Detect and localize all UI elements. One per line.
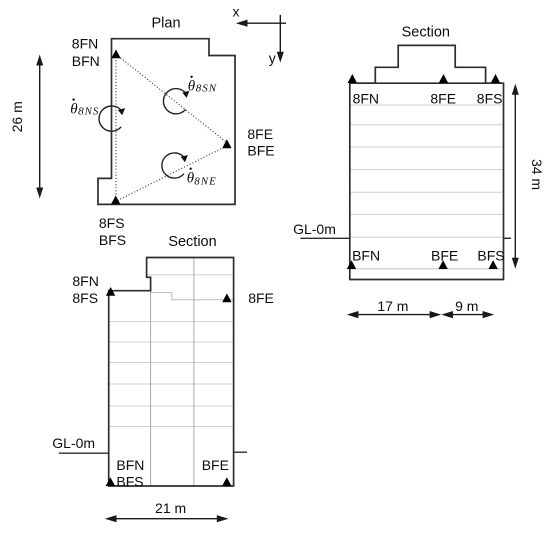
plan outline	[98, 39, 235, 205]
svg-text:8FN: 8FN	[72, 36, 98, 52]
y axis arrow	[277, 15, 284, 63]
svg-text:8FN: 8FN	[72, 273, 98, 289]
svg-text:GL-0m: GL-0m	[293, 221, 336, 237]
section (bottom) interior column line B	[193, 258, 195, 487]
label theta-8NE	[187, 168, 217, 188]
svg-text:8SN: 8SN	[196, 83, 217, 95]
svg-text:8FN: 8FN	[353, 91, 379, 107]
wire: dotted line 8FN to 8FS	[115, 57, 117, 200]
section (bottom) stepped floor line	[151, 293, 234, 300]
rotation arrow theta-8NE	[162, 153, 188, 178]
sensor triangle BFE (right section)	[438, 260, 447, 269]
sensor triangle 8FS (plan)	[111, 196, 120, 205]
svg-text:y: y	[269, 50, 276, 66]
svg-text:BFE: BFE	[431, 247, 458, 263]
wire: dotted line 8FS to 8FE	[118, 147, 226, 201]
svg-text:BFE: BFE	[202, 457, 229, 473]
svg-text:BFN: BFN	[116, 457, 144, 473]
svg-text:θ: θ	[70, 101, 78, 117]
17 m dimension arrow	[347, 311, 442, 318]
svg-text:Section: Section	[402, 25, 450, 41]
sensor triangle 8FS (right section)	[491, 74, 500, 83]
svg-text:26 m: 26 m	[9, 101, 25, 132]
sensor triangle 8FE (bottom section)	[222, 293, 231, 302]
svg-text:x: x	[233, 4, 240, 20]
svg-text:BFE: BFE	[247, 143, 274, 159]
sensor triangle 8FE (right section)	[439, 74, 448, 83]
x axis arrow	[236, 20, 286, 27]
svg-text:17 m: 17 m	[377, 298, 408, 314]
GL tick right (right section)	[504, 237, 512, 239]
svg-text:9 m: 9 m	[455, 298, 478, 314]
svg-text:8FE: 8FE	[247, 126, 273, 142]
26 m dimension arrow	[36, 55, 43, 199]
21 m dimension arrow	[105, 515, 229, 522]
section (right) basement floor line	[351, 268, 503, 270]
svg-text:8FS: 8FS	[477, 91, 503, 107]
sensor triangle 8FE (plan)	[222, 139, 231, 148]
svg-text:θ: θ	[188, 78, 196, 94]
wire: dotted line 8FN to 8FE	[118, 56, 226, 142]
sensor triangle BFE (bottom section)	[222, 477, 231, 486]
9 m dimension arrow	[441, 311, 494, 318]
sensor triangle 8FN/8FS (bottom section)	[106, 287, 115, 296]
svg-text:8FS: 8FS	[72, 290, 98, 306]
svg-text:BFS: BFS	[99, 232, 126, 248]
svg-text:GL-0m: GL-0m	[52, 435, 95, 451]
section (bottom) interior column line A	[150, 291, 152, 486]
section (bottom) outline	[109, 258, 234, 487]
sensor triangle BFS (right section)	[488, 260, 497, 269]
section (bottom) floor lines	[109, 275, 234, 427]
svg-text:Plan: Plan	[151, 15, 180, 31]
svg-text:34 m: 34 m	[529, 159, 545, 190]
svg-text:BFS: BFS	[116, 474, 143, 490]
svg-text:21 m: 21 m	[155, 500, 186, 516]
section (right) roof line	[350, 82, 504, 84]
svg-text:8FE: 8FE	[248, 290, 274, 306]
sensor triangle BFN/BFS (bottom section)	[106, 477, 115, 486]
sensor triangle BFN (right section)	[347, 260, 356, 269]
GL line (bottom section)	[59, 452, 109, 454]
34 m dimension arrow	[512, 84, 519, 269]
label theta-8SN	[188, 76, 217, 95]
section (right) outline	[350, 45, 504, 279]
svg-text:BFS: BFS	[477, 247, 504, 263]
rotation arrow theta-8SN	[163, 89, 189, 114]
svg-text:8NS: 8NS	[78, 106, 99, 118]
svg-text:Section: Section	[168, 234, 216, 250]
GL line (right section)	[300, 237, 349, 239]
sensor triangle 8FN (plan)	[111, 50, 120, 59]
sensor triangle 8FN (right section)	[348, 74, 357, 83]
label theta-8NS	[70, 98, 99, 117]
svg-text:BFN: BFN	[72, 53, 100, 69]
GL tick right (bottom section)	[234, 451, 247, 453]
svg-text:8FS: 8FS	[99, 215, 125, 231]
section (right) floor lines	[351, 105, 503, 237]
rotation arrow theta-8NS	[99, 106, 125, 131]
svg-text:8NE: 8NE	[194, 176, 217, 188]
svg-text:BFN: BFN	[352, 247, 380, 263]
svg-text:8FE: 8FE	[430, 91, 456, 107]
